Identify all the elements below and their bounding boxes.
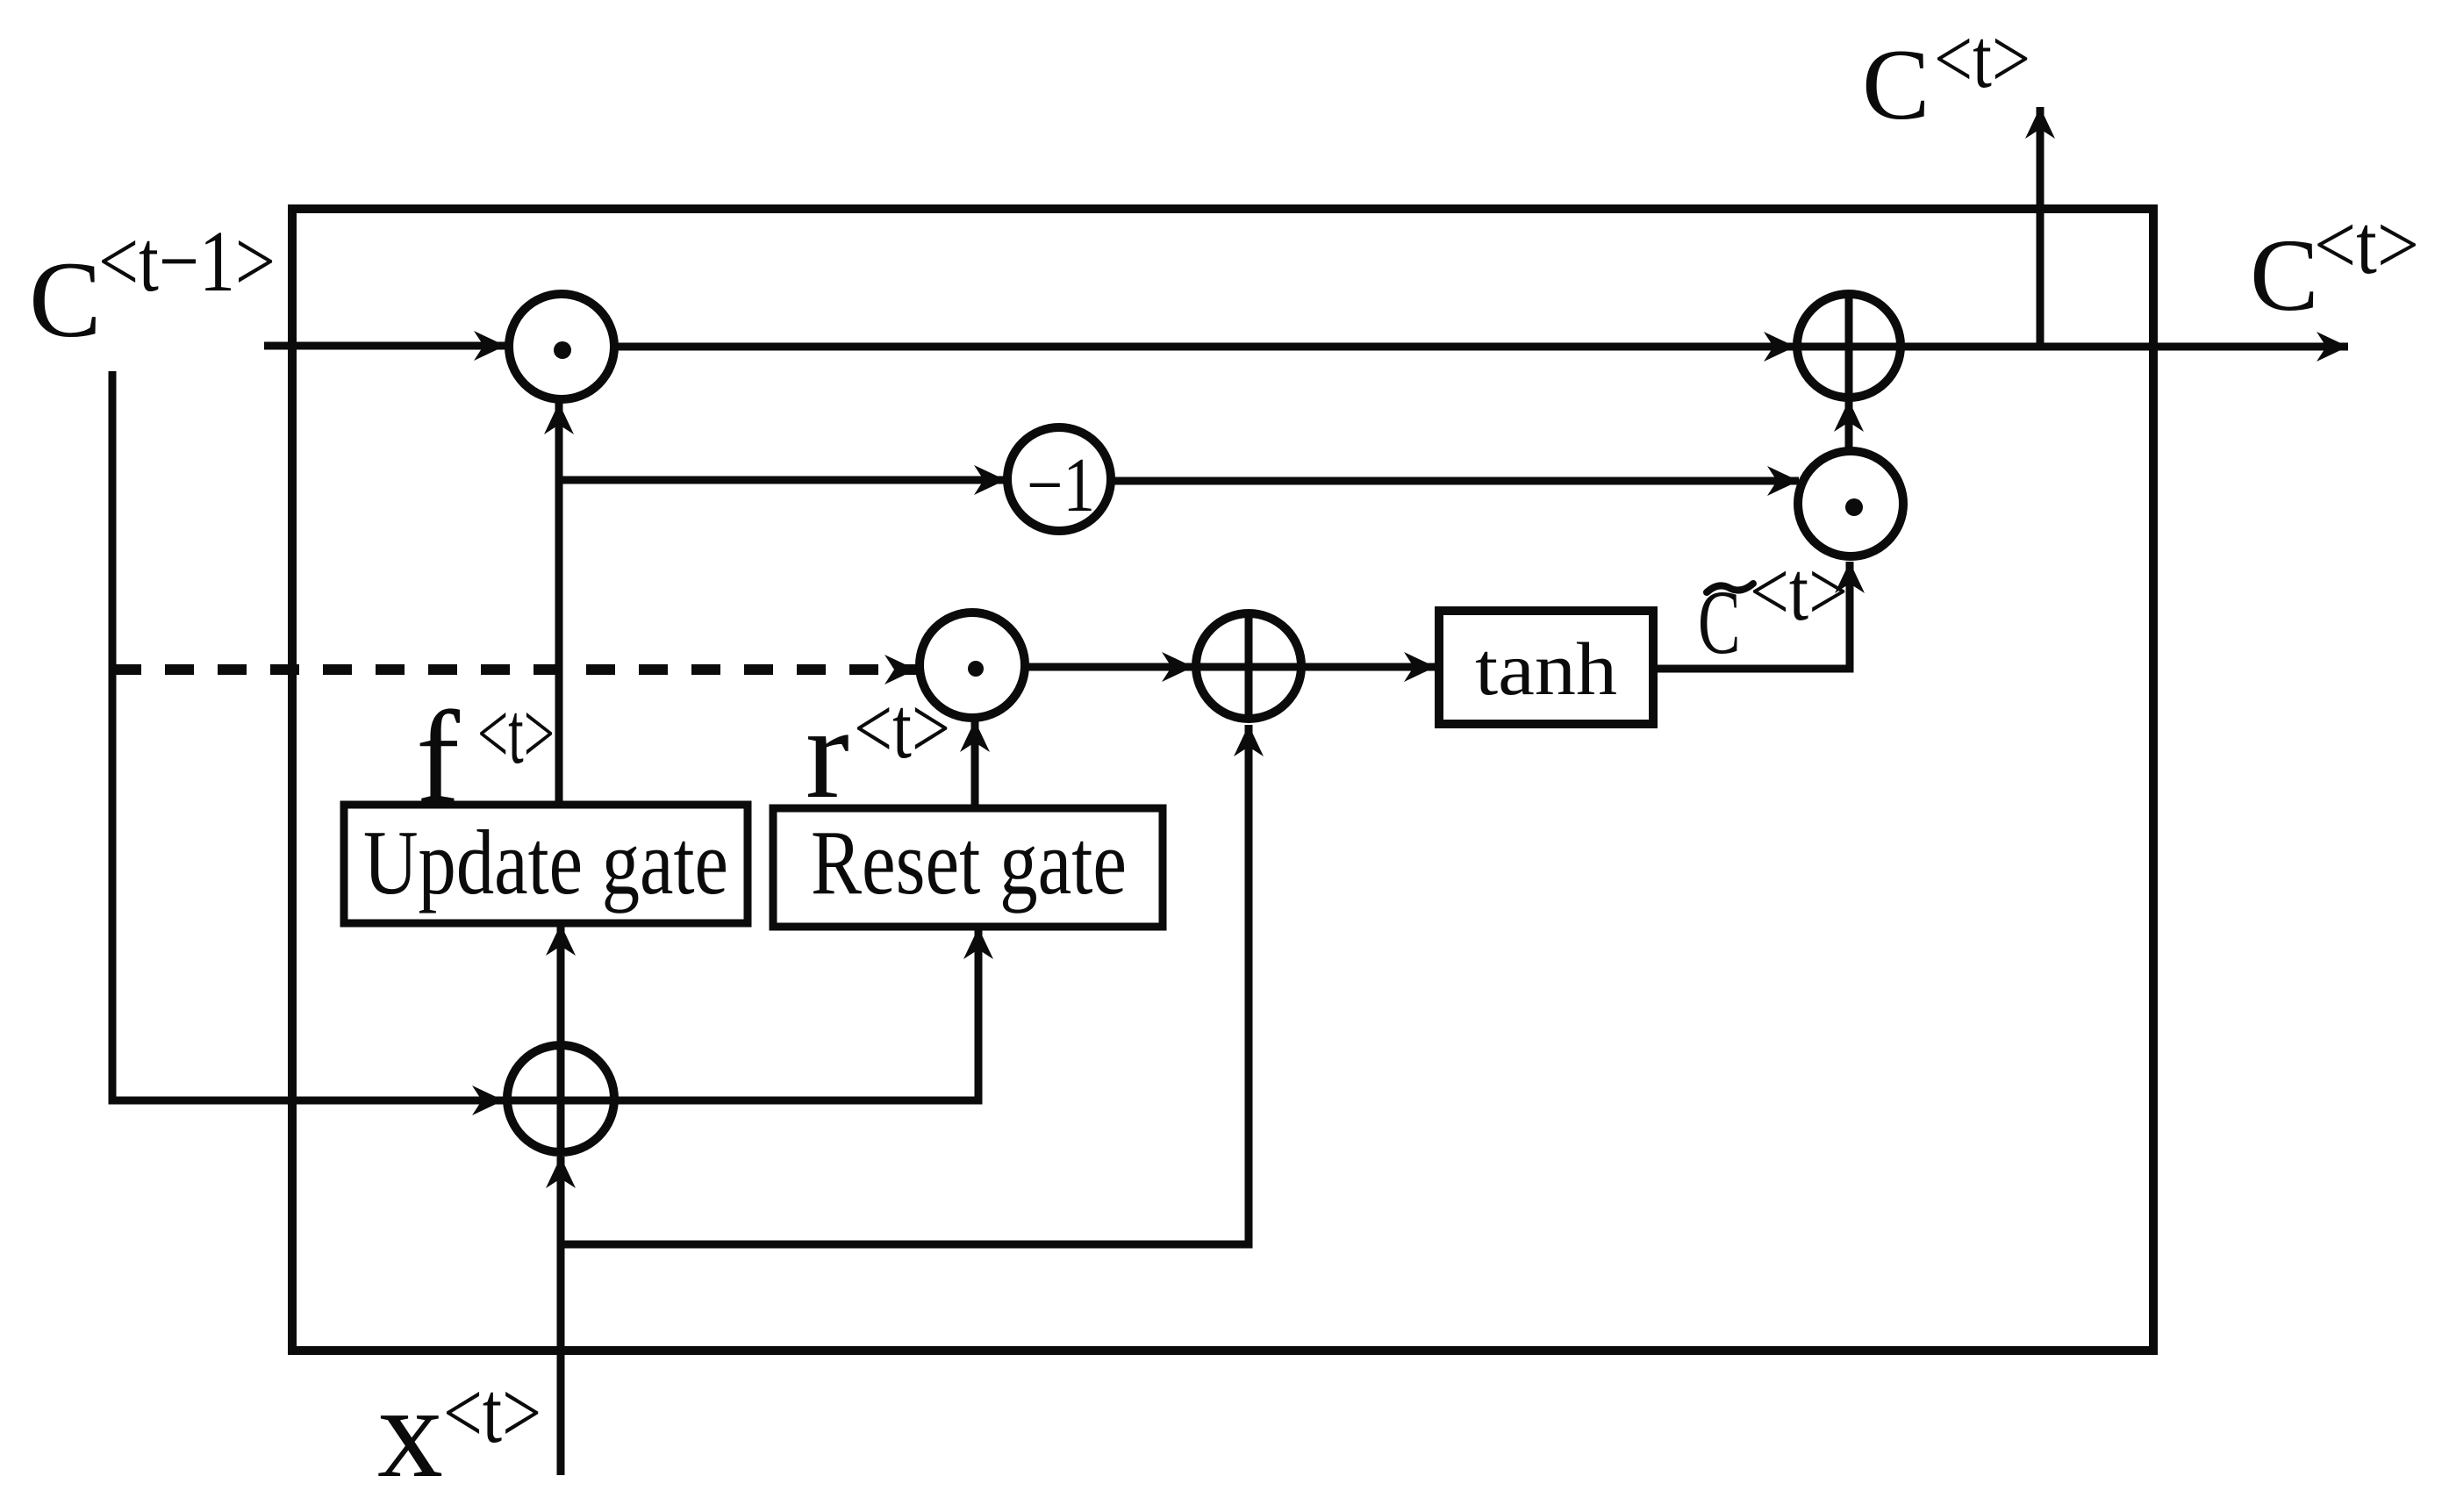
wire tanh output elbow to second multiplier (1653, 562, 1850, 669)
label f<t> (416, 684, 555, 830)
svg-text:<t>: <t> (1934, 11, 2030, 105)
-1 node circle (1007, 427, 1111, 531)
wire f branch to -1 node (559, 477, 1006, 484)
svg-text:C: C (29, 240, 102, 360)
wire x<t> input up into adder row3 (557, 1157, 565, 1475)
svg-text:x: x (377, 1359, 443, 1505)
svg-text:−1: −1 (1027, 443, 1095, 528)
reset gate box (773, 808, 1163, 927)
reset multiplier node (920, 613, 1025, 718)
svg-text:<t>: <t> (477, 684, 555, 782)
wire adder output C<t> (1901, 343, 2348, 351)
adder cross horizontal (1800, 343, 1898, 351)
tanh box (1439, 611, 1653, 724)
adder cross vertical (1845, 295, 1853, 397)
adder row2 cross vertical (1245, 613, 1253, 718)
adder node row3 (507, 1045, 614, 1152)
adder row3 cross horizontal (511, 1097, 611, 1105)
label C<t-1> (29, 212, 276, 360)
label r<t> (806, 679, 950, 826)
wire adder row3 up to update gate (557, 924, 565, 1044)
wire reset gate up to reset multiplier (971, 720, 979, 808)
label C<t> right (2250, 197, 2419, 333)
dot of reset multiplier (968, 661, 984, 677)
svg-text:tanh: tanh (1475, 627, 1617, 711)
svg-text:Reset gate: Reset gate (811, 811, 1127, 914)
wire second multiplier up into adder (1845, 400, 1853, 453)
svg-text:<t>: <t> (854, 679, 950, 777)
GRU cell outer box (292, 209, 2153, 1351)
svg-text:C: C (2250, 218, 2319, 333)
wire C<t> up branch (2037, 107, 2045, 347)
wire adder row3 right and up to reset gate (613, 928, 978, 1100)
svg-text:C: C (1862, 29, 1930, 141)
wire C<t-1> left branch down and into adder row3 (112, 371, 504, 1100)
adder node row1 (1797, 294, 1901, 398)
dashed wire C<t-1> to reset multiplier (112, 664, 916, 675)
wire f<t> from update gate to multiplier (555, 403, 563, 805)
svg-text:Update gate: Update gate (363, 811, 728, 914)
wire C<t-1> input into cell (264, 342, 505, 350)
dot of multiplier node (554, 341, 571, 359)
second multiplier node (1798, 451, 1903, 556)
svg-text:f: f (416, 684, 460, 830)
svg-text:<t>: <t> (443, 1364, 541, 1461)
wire adder row2 to tanh (1301, 663, 1436, 671)
label C~<t> tilde C (1698, 544, 1848, 673)
label x<t> (377, 1359, 541, 1505)
svg-text:<t>: <t> (2314, 197, 2419, 291)
adder row2 cross horizontal (1199, 663, 1299, 671)
svg-text:<t−1>: <t−1> (98, 212, 276, 310)
update gate box (344, 805, 748, 923)
adder node row2 (1196, 613, 1301, 719)
svg-text:<t>: <t> (1750, 544, 1848, 638)
label C<t> top (1862, 11, 2030, 141)
dot of second multiplier (1845, 498, 1863, 516)
wire multiplier to adder row1 (614, 343, 1795, 351)
wire -1 to second multiplier (1111, 477, 1799, 485)
wire reset multiplier to adder row2 (1025, 663, 1193, 671)
wire x branch elbow to adder row2 (561, 725, 1249, 1244)
multiplier node (forget product) (509, 294, 614, 399)
adder row3 cross vertical (557, 1046, 565, 1151)
svg-text:r: r (806, 680, 849, 826)
